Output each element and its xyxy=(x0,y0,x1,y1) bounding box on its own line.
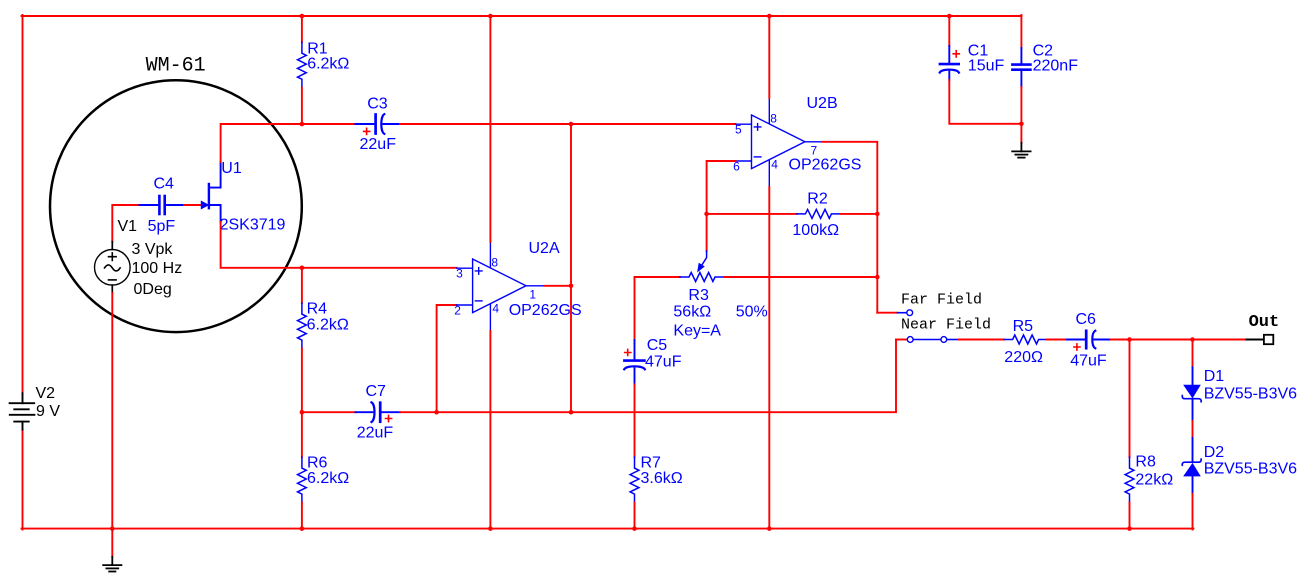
terminal Out xyxy=(1264,335,1273,344)
resistor R5 xyxy=(1004,335,1047,344)
svg-text:2: 2 xyxy=(454,303,461,317)
svg-text:100 Hz: 100 Hz xyxy=(132,260,183,277)
svg-text:6.2kΩ: 6.2kΩ xyxy=(307,470,349,487)
svg-text:Near Field: Near Field xyxy=(901,316,991,333)
svg-text:D2: D2 xyxy=(1204,444,1225,461)
wire C4 to U1 gate xyxy=(184,204,201,206)
junction R4/C7 xyxy=(300,410,305,415)
svg-text:100kΩ: 100kΩ xyxy=(792,222,839,239)
svg-text:5pF: 5pF xyxy=(148,218,176,235)
wire Out stub xyxy=(1246,339,1264,341)
svg-text:Out: Out xyxy=(1249,313,1280,332)
junction R8 top xyxy=(1127,337,1132,342)
svg-text:7: 7 xyxy=(811,143,818,157)
svg-text:WM-61: WM-61 xyxy=(146,55,206,78)
switch throw Far Field xyxy=(877,312,897,314)
capacitor C6 xyxy=(1067,331,1111,349)
wire C3 to U2B pin5 xyxy=(400,123,736,125)
plus C5 xyxy=(625,349,631,355)
wire V1 top to C4 xyxy=(112,205,139,242)
svg-text:1: 1 xyxy=(529,287,536,301)
junction D1 top xyxy=(1190,337,1195,342)
resistor R7 xyxy=(634,384,636,457)
wire U2A out to column xyxy=(544,285,571,287)
svg-text:R7: R7 xyxy=(641,454,662,471)
svg-text:220Ω: 220Ω xyxy=(1004,349,1043,366)
junction pin4 rail xyxy=(488,526,493,531)
plus C6 xyxy=(1074,344,1080,350)
svg-text:50%: 50% xyxy=(736,304,768,321)
plus C3 xyxy=(364,128,370,134)
wire bottom ground rail xyxy=(22,528,1194,530)
wire V1 bottom to rail xyxy=(111,293,113,529)
svg-text:BZV55-B3V6: BZV55-B3V6 xyxy=(1204,461,1297,478)
svg-text:22kΩ: 22kΩ xyxy=(1135,471,1173,488)
junction U2B pin4 rail xyxy=(767,526,772,531)
wire feedback column xyxy=(570,124,572,412)
wire U1 drain up to node xyxy=(221,124,302,162)
ground bottom-left xyxy=(103,557,121,572)
junction R6 rail xyxy=(300,526,305,531)
junction R1 top rail xyxy=(300,14,305,19)
svg-text:V1: V1 xyxy=(118,218,138,235)
capacitor C7 xyxy=(302,411,356,413)
wire U1 source down xyxy=(221,222,457,268)
svg-text:V2: V2 xyxy=(36,385,56,402)
svg-text:2SK3719: 2SK3719 xyxy=(220,216,286,233)
wire D1 top xyxy=(1192,340,1194,368)
svg-text:D1: D1 xyxy=(1204,368,1225,385)
junction V1-rail xyxy=(110,526,115,531)
ground top-right xyxy=(1012,143,1030,158)
junction C1 top rail xyxy=(947,14,952,19)
svg-text:Key=A: Key=A xyxy=(673,323,721,340)
wire ground stub top-right xyxy=(1020,124,1022,143)
wire C7 to pin2 column xyxy=(400,411,571,413)
junction source/R4 xyxy=(300,266,305,271)
op-amp U2B xyxy=(736,98,823,187)
wire U2A pin4 to ground rail xyxy=(489,331,491,529)
wire ground stub bottom-left xyxy=(111,529,113,557)
svg-text:R2: R2 xyxy=(807,191,828,208)
wire U2A pin2 column xyxy=(437,305,457,412)
svg-text:C6: C6 xyxy=(1076,311,1097,328)
svg-text:C7: C7 xyxy=(366,383,387,400)
svg-text:47uF: 47uF xyxy=(645,354,682,371)
svg-text:U1: U1 xyxy=(221,160,242,177)
svg-text:C5: C5 xyxy=(647,337,668,354)
svg-text:0Deg: 0Deg xyxy=(134,281,172,298)
battery V2 xyxy=(10,393,35,430)
svg-text:4: 4 xyxy=(771,158,778,172)
junction C7/pin2 column xyxy=(434,410,439,415)
svg-text:OP262GS: OP262GS xyxy=(509,302,582,319)
switch blade and pole xyxy=(914,339,941,341)
potentiometer R3 wiper xyxy=(698,251,707,271)
switch throw Near Field xyxy=(896,339,907,341)
microphone circle WM-61 xyxy=(50,80,302,332)
resistor R1 xyxy=(301,16,303,42)
svg-text:56kΩ: 56kΩ xyxy=(673,304,711,321)
svg-text:6.2kΩ: 6.2kΩ xyxy=(307,56,349,73)
svg-text:220nF: 220nF xyxy=(1033,58,1079,75)
svg-text:3 Vpk: 3 Vpk xyxy=(132,241,174,258)
junction C7 line x571 xyxy=(569,410,574,415)
svg-text:U2A: U2A xyxy=(529,240,560,257)
diode D1 BZV55-B3V6 xyxy=(1182,367,1201,421)
svg-text:3: 3 xyxy=(456,267,463,281)
resistor R3 xyxy=(635,276,680,278)
wire top +9V rail xyxy=(22,15,1022,17)
wire D2 to rail xyxy=(1192,494,1194,530)
wire U2B pin4 to ground rail xyxy=(768,187,770,529)
plus C1 xyxy=(953,51,959,57)
diode D2 BZV55-B3V6 xyxy=(1182,438,1201,494)
svg-text:8: 8 xyxy=(491,256,498,270)
resistor R6 xyxy=(301,412,303,457)
wire left rail (V2 bottom) xyxy=(22,430,24,530)
svg-text:U2B: U2B xyxy=(807,95,838,112)
svg-text:R4: R4 xyxy=(307,301,328,318)
svg-text:R5: R5 xyxy=(1013,318,1034,335)
junction U2B pin8 rail xyxy=(767,14,772,19)
plus C7 xyxy=(386,415,392,421)
capacitor C5 xyxy=(634,277,636,340)
svg-text:15uF: 15uF xyxy=(968,58,1005,75)
wire left rail (V2 top) xyxy=(22,15,24,393)
junction R3 right xyxy=(875,275,880,280)
svg-text:R6: R6 xyxy=(307,454,328,471)
junction C2 bottom xyxy=(1019,122,1024,127)
resistor R2 xyxy=(707,213,797,215)
capacitor C4 xyxy=(140,196,185,214)
wire D1-D2 xyxy=(1192,421,1194,438)
source V1 (sine) xyxy=(95,242,131,293)
svg-text:5: 5 xyxy=(735,123,742,137)
wire node to C3 xyxy=(302,123,356,125)
svg-text:R8: R8 xyxy=(1135,454,1156,471)
wire C7 line to switch xyxy=(571,340,896,413)
resistor R8 xyxy=(1129,340,1131,458)
junction feedback column top xyxy=(569,122,574,127)
wire U2A pin8 to rail xyxy=(489,16,491,242)
svg-text:4: 4 xyxy=(492,302,499,316)
junction R2 right xyxy=(875,212,880,217)
wire U2B pin8 to rail xyxy=(768,16,770,98)
wire C1 bottom to C2 bottom xyxy=(949,80,1021,124)
svg-text:22uF: 22uF xyxy=(357,425,394,442)
junction R7 rail xyxy=(632,526,637,531)
transistor U1 2SK3719 xyxy=(201,162,220,222)
wire C6 to Out xyxy=(1111,339,1246,341)
capacitor C2 xyxy=(1020,15,1022,48)
junction R8 rail xyxy=(1127,526,1132,531)
svg-text:C3: C3 xyxy=(367,96,388,113)
svg-text:47uF: 47uF xyxy=(1070,353,1107,370)
svg-text:Far Field: Far Field xyxy=(901,291,982,308)
junction R1 bottom node xyxy=(300,122,305,127)
wire U2B pin6 column xyxy=(707,161,736,251)
svg-text:3.6kΩ: 3.6kΩ xyxy=(641,470,683,487)
svg-text:C4: C4 xyxy=(154,176,175,193)
junction pin8 rail xyxy=(488,14,493,19)
svg-text:9 V: 9 V xyxy=(36,403,60,420)
svg-text:OP262GS: OP262GS xyxy=(789,157,862,174)
capacitor C3 xyxy=(355,114,400,134)
svg-text:BZV55-B3V6: BZV55-B3V6 xyxy=(1204,386,1297,403)
wire U2B out down xyxy=(823,142,877,313)
op-amp U2A xyxy=(457,242,544,331)
junction U2A out xyxy=(569,284,574,289)
svg-text:22uF: 22uF xyxy=(360,136,397,153)
resistor R4 xyxy=(301,268,303,303)
svg-text:R3: R3 xyxy=(688,287,709,304)
junction pin6/R2 xyxy=(704,212,709,217)
wire switch to R5 xyxy=(959,339,1004,341)
svg-text:6.2kΩ: 6.2kΩ xyxy=(307,317,349,334)
capacitor C1 xyxy=(948,16,950,46)
svg-text:8: 8 xyxy=(770,112,777,126)
